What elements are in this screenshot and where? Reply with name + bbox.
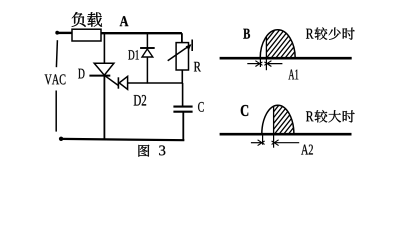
resistor R: adjustment arrow diagonal: [168, 45, 191, 61]
thyristor D: triangle: [94, 63, 114, 75]
waveform B: left dimension arrow: [247, 63, 260, 65]
label: D (thyristor): [78, 69, 84, 79]
label: D1: [128, 50, 134, 59]
wire: gate line from D2 to R/C junction: [128, 82, 183, 84]
thyristor D: cathode lead to bottom rail: [103, 76, 105, 140]
wire: gate diagonal from thyristor to D2: [106, 76, 119, 85]
wire: bottom rail: [61, 139, 184, 140]
axis line for waveform C: [220, 133, 352, 136]
capacitor C: top plate: [173, 106, 192, 108]
node: AC source top terminal dot: [55, 31, 59, 35]
waveform C: right dimension arrow: [274, 142, 300, 144]
capacitor C: bottom plate: [173, 111, 192, 113]
thyristor D: anode lead from node A: [103, 33, 105, 63]
diode D1: cathode bar: [140, 47, 155, 49]
capacitor C: lead from bottom plate to bottom rail: [182, 112, 184, 141]
label: R: [194, 62, 201, 71]
diode D1: lead from top rail: [146, 33, 148, 48]
diode D2: triangle pointing left: [119, 76, 127, 89]
wire: top rail from source to node A to R branch corner: [57, 32, 72, 34]
waveform C: dimension extension ticks: [262, 135, 264, 145]
label: VAC source: [45, 74, 52, 84]
thyristor D: cathode crossbar: [89, 75, 110, 77]
label: figure caption 图 3: [138, 145, 165, 157]
wire: left rail upper segment: [56, 40, 57, 67]
label: 负载 (load): [72, 12, 102, 27]
wire: D1 lead down to gate line: [146, 57, 148, 84]
label: B (waveform): [243, 29, 250, 39]
waveform B: trigger line: [265, 37, 267, 58]
waveform C: half-sine hump outline: [262, 105, 294, 134]
wire: R lead down to gate/C junction: [181, 70, 183, 84]
label: C (waveform): [241, 105, 248, 116]
label: node A: [120, 16, 129, 26]
waveform B: dimension extension ticks: [259, 59, 261, 67]
diode D1: triangle pointing up: [142, 49, 153, 57]
label: R较大时 (when R is larger): [306, 110, 355, 122]
label: R较少时 (when R is smaller): [306, 27, 355, 39]
waveform B: right dimension arrow: [266, 63, 282, 65]
resistor R: arrowhead: [186, 44, 192, 50]
resistor R: variable resistor box: [176, 43, 188, 70]
axis line for waveform B: [220, 57, 352, 60]
label: C (capacitor): [198, 102, 204, 112]
wire: top rail corner down to R: [181, 33, 183, 42]
diode D2: cathode bar: [117, 77, 119, 88]
label: A2: [301, 145, 308, 155]
wire: left rail lower segment: [55, 91, 57, 132]
label: D2: [134, 95, 141, 105]
resistor: load 负载 box: [72, 29, 101, 41]
waveform C: left dimension arrow: [251, 142, 263, 144]
label: A1: [288, 69, 294, 79]
capacitor C: lead from junction down to top plate: [182, 83, 184, 106]
waveform C: trigger line: [273, 106, 275, 134]
resistor R: arrow end bar: [191, 40, 193, 52]
waveform B: half-sine hump outline: [260, 30, 295, 58]
node: AC source bottom terminal dot: [59, 137, 63, 141]
